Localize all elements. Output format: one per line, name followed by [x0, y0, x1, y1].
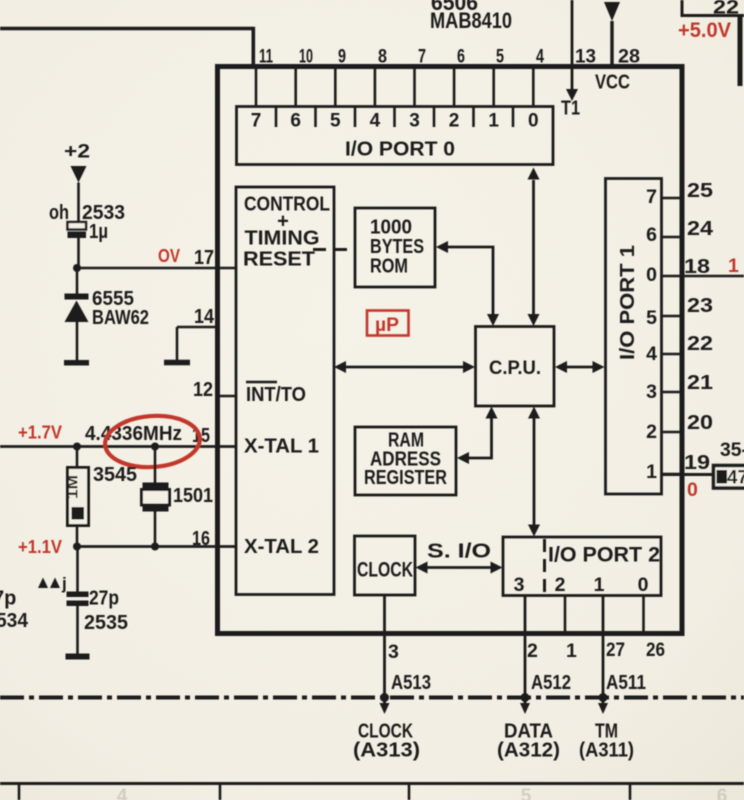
- svg-text:28: 28: [618, 46, 640, 68]
- svg-text:C.P.U.: C.P.U.: [489, 357, 541, 379]
- svg-text:25: 25: [687, 180, 713, 202]
- svg-text:X-TAL 2: X-TAL 2: [244, 536, 319, 558]
- svg-text:27p: 27p: [89, 588, 119, 610]
- svg-text:13: 13: [575, 46, 596, 68]
- svg-text:23: 23: [687, 295, 713, 317]
- svg-text:I/O PORT 2: I/O PORT 2: [548, 544, 660, 567]
- svg-text:5: 5: [330, 111, 341, 132]
- svg-text:j: j: [61, 574, 67, 593]
- svg-text:µP: µP: [375, 314, 399, 336]
- svg-text:8: 8: [378, 46, 387, 68]
- svg-text:6: 6: [717, 786, 728, 800]
- svg-text:+5.0V: +5.0V: [678, 19, 731, 42]
- svg-text:ROM: ROM: [370, 256, 408, 278]
- svg-text:BAW62: BAW62: [92, 306, 149, 329]
- svg-text:19: 19: [684, 452, 710, 474]
- svg-text:0: 0: [638, 574, 649, 596]
- svg-text:2: 2: [527, 640, 538, 662]
- svg-text:A513: A513: [391, 672, 431, 694]
- svg-text:0: 0: [687, 479, 698, 501]
- svg-text:11: 11: [259, 46, 273, 68]
- svg-text:1: 1: [488, 111, 499, 132]
- svg-text:7: 7: [418, 46, 426, 68]
- svg-text:CLOCK: CLOCK: [357, 559, 413, 582]
- svg-text:I/O PORT 1: I/O PORT 1: [617, 245, 639, 360]
- svg-text:17: 17: [194, 247, 214, 269]
- svg-text:TIMING: TIMING: [245, 228, 320, 250]
- svg-text:4.4336MHz: 4.4336MHz: [85, 423, 182, 445]
- svg-text:3: 3: [388, 641, 399, 663]
- svg-text:A512: A512: [531, 672, 571, 694]
- svg-text:1: 1: [646, 461, 657, 483]
- svg-text:2: 2: [646, 421, 657, 443]
- svg-text:+2: +2: [64, 141, 90, 163]
- svg-text:5: 5: [496, 46, 504, 68]
- svg-text:24: 24: [687, 218, 714, 240]
- svg-text:7: 7: [251, 111, 262, 132]
- svg-text:3545: 3545: [93, 464, 137, 486]
- svg-text:RESET: RESET: [243, 249, 315, 271]
- svg-text:1501: 1501: [173, 485, 213, 507]
- svg-text:6: 6: [290, 111, 301, 132]
- svg-text:oh: oh: [49, 202, 69, 224]
- svg-text:4: 4: [536, 46, 544, 68]
- svg-text:OV: OV: [158, 246, 180, 266]
- svg-text:47: 47: [727, 467, 744, 489]
- svg-text:2: 2: [449, 111, 460, 132]
- svg-text:22: 22: [687, 333, 713, 355]
- svg-text:1: 1: [728, 255, 739, 277]
- svg-text:16: 16: [192, 528, 210, 550]
- svg-text:4: 4: [646, 343, 657, 365]
- svg-text:2535: 2535: [84, 612, 128, 634]
- svg-text:3: 3: [409, 111, 420, 132]
- svg-text:21: 21: [687, 372, 713, 394]
- svg-text:4: 4: [370, 111, 381, 132]
- svg-text:3: 3: [646, 381, 657, 403]
- svg-text:10: 10: [299, 46, 313, 68]
- svg-text:534: 534: [0, 610, 29, 632]
- svg-text:1µ: 1µ: [89, 221, 108, 243]
- svg-text:9: 9: [338, 46, 346, 68]
- svg-text:1M: 1M: [65, 475, 82, 499]
- svg-text:MAB8410: MAB8410: [430, 8, 512, 33]
- svg-text:(A313): (A313): [353, 740, 420, 762]
- svg-text:VCC: VCC: [595, 72, 630, 94]
- svg-text:4: 4: [117, 786, 128, 800]
- svg-text:A511: A511: [606, 672, 646, 694]
- svg-text:+1.7V: +1.7V: [18, 423, 62, 443]
- svg-text:(A311): (A311): [579, 740, 634, 762]
- svg-text:T1: T1: [561, 98, 580, 120]
- svg-text:REGISTER: REGISTER: [364, 467, 447, 489]
- svg-text:1: 1: [566, 640, 577, 662]
- svg-text:6: 6: [646, 224, 657, 246]
- svg-text:6: 6: [457, 46, 465, 68]
- svg-text:0: 0: [528, 111, 539, 132]
- svg-text:(A312): (A312): [497, 740, 560, 762]
- svg-text:1: 1: [594, 574, 605, 596]
- svg-text:12: 12: [193, 379, 213, 401]
- svg-text:INT/TO: INT/TO: [246, 384, 306, 406]
- svg-text:3: 3: [514, 574, 525, 596]
- svg-text:5: 5: [646, 307, 657, 329]
- svg-text:S. I/O: S. I/O: [427, 541, 491, 563]
- svg-text:14: 14: [194, 306, 215, 328]
- svg-text:X-TAL 1: X-TAL 1: [244, 436, 319, 458]
- svg-text:5: 5: [521, 786, 532, 800]
- svg-text:I/O PORT 0: I/O PORT 0: [345, 139, 455, 161]
- svg-text:22: 22: [713, 0, 739, 19]
- svg-text:35-: 35-: [720, 439, 744, 461]
- svg-text:0: 0: [646, 264, 657, 286]
- svg-text:18: 18: [684, 256, 710, 278]
- svg-text:27: 27: [606, 639, 625, 661]
- svg-text:+1.1V: +1.1V: [18, 537, 62, 557]
- svg-text:26: 26: [646, 639, 665, 661]
- svg-text:20: 20: [687, 412, 713, 434]
- svg-text:7p: 7p: [0, 588, 16, 610]
- svg-text:7: 7: [646, 186, 657, 208]
- svg-text:2: 2: [555, 574, 566, 596]
